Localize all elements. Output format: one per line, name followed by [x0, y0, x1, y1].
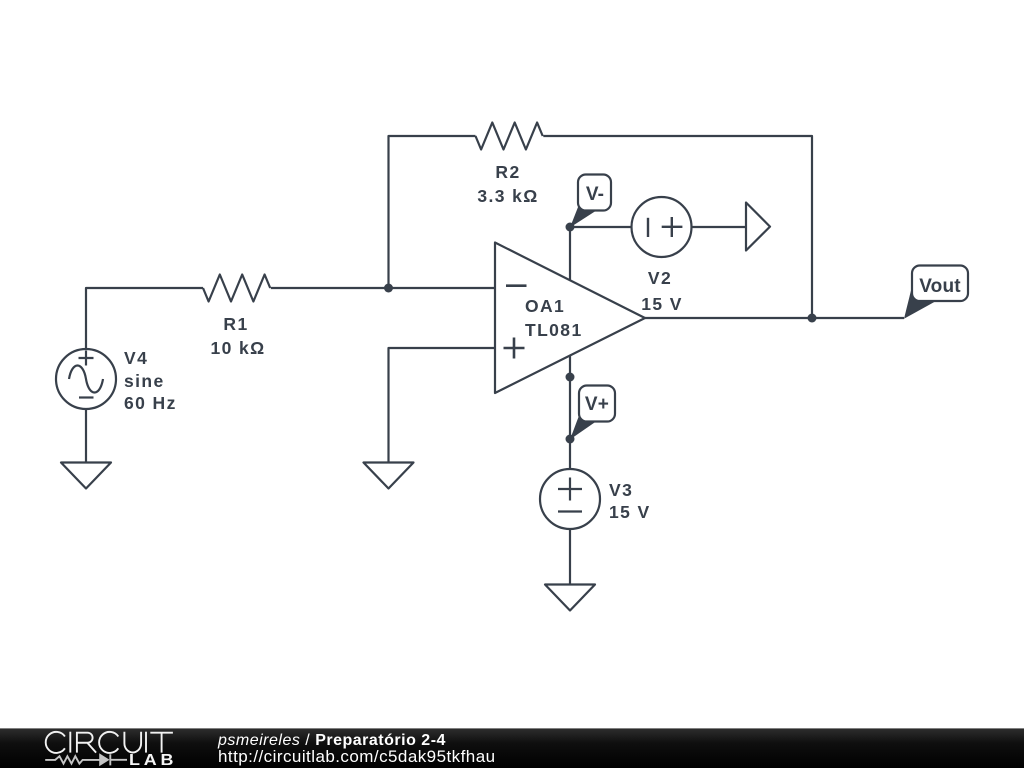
footer title: psmeireles / Preparatório 2-4: [218, 732, 446, 750]
op-amp OA1 non-inverting input plus sign: [504, 338, 525, 359]
wire: V3 negative terminal down to ground: [569, 529, 571, 584]
label R1 value 10 kΩ: [88, 339, 388, 359]
label V3 value 15 V: [609, 503, 651, 523]
label V4 name: [124, 349, 148, 369]
wire: V4 positive terminal up and right to R1 (input net): [86, 288, 203, 349]
node: output junction dot: [808, 314, 817, 323]
voltage source V4 (sine 60 Hz) circle: [56, 349, 116, 409]
V4 minus mark: [79, 396, 94, 398]
V2 plus mark: [662, 217, 683, 237]
wire: V- node to V2 negative terminal: [570, 226, 632, 228]
label V4 value 60 Hz: [124, 394, 177, 414]
letter R: [77, 733, 96, 753]
letter U: [124, 732, 141, 753]
ground under V3: [545, 585, 595, 611]
flag text V-: [445, 184, 745, 205]
V4 sine wave symbol: [69, 366, 103, 393]
V3 plus mark: [558, 478, 582, 501]
letter T: [150, 733, 173, 753]
voltage source V2 (15 V) circle: [632, 197, 692, 257]
wire: V2 positive terminal to ground: [692, 226, 747, 228]
label OA1 model TL081: [525, 321, 583, 341]
ground under V4: [61, 463, 111, 489]
CircuitLab logo wordmark CIRCUIT (drawn letters): [46, 732, 173, 753]
ground (right-pointing) at V2: [746, 203, 770, 251]
letter C: [99, 732, 118, 753]
letter C: [46, 732, 65, 753]
V3 minus mark: [558, 510, 582, 512]
label V4 type sine: [124, 372, 165, 392]
CircuitLab logo schematic squiggle (resistor + diode): [45, 754, 127, 765]
footer url: [218, 747, 496, 766]
ground at non-inverting input: [364, 463, 414, 489]
wire: R2 right lead to top-right corner and down to output node: [543, 136, 812, 318]
V2 minus mark (rotated): [647, 218, 649, 237]
node A junction dot (R1 / feedback / op-amp - input): [384, 284, 393, 293]
label V3 name: [609, 481, 633, 501]
op-amp OA1 TL081 triangle body: [495, 243, 645, 394]
wire: R1 right lead to op-amp inverting input through node A: [271, 287, 495, 289]
flag bubble V+: [570, 386, 615, 440]
label R2 name: [358, 163, 658, 183]
wire: V4 negative terminal down to ground: [85, 409, 87, 462]
flag bubble Vout: [904, 266, 968, 319]
flag text V+: [447, 394, 747, 415]
node: V+ pin junction dot: [566, 373, 575, 382]
CircuitLab logo wordmark LAB: [129, 752, 177, 770]
letter I: [69, 732, 71, 753]
wire: op-amp non-inverting input to ground: [389, 348, 496, 462]
voltage source V3 (15 V) circle: [540, 469, 600, 529]
node: V- junction dot: [566, 223, 575, 232]
op-amp OA1 inverting input minus sign: [506, 284, 527, 287]
resistor R1: [203, 275, 270, 302]
footer bar: [0, 728, 1024, 768]
label V2 value 15 V: [512, 295, 812, 315]
label R1 name: [86, 315, 386, 335]
label V2 name: [510, 269, 810, 289]
label OA1 name: [525, 297, 565, 317]
wire: feedback left vertical segment from node A up to R2: [389, 136, 476, 288]
label R2 value 3.3 kΩ: [358, 187, 658, 207]
node: V+ flag junction dot: [566, 435, 575, 444]
letter I: [145, 732, 147, 753]
resistor R2 (feedback): [476, 123, 543, 150]
flag text Vout: [790, 276, 1024, 297]
wire: op-amp V- power pin up to V- node: [569, 227, 571, 281]
V4 plus mark: [79, 351, 94, 366]
wire: op-amp output to Vout flag: [645, 317, 904, 319]
wire: op-amp V+ power pin down to V3: [569, 356, 571, 470]
flag bubble V-: [570, 175, 611, 228]
